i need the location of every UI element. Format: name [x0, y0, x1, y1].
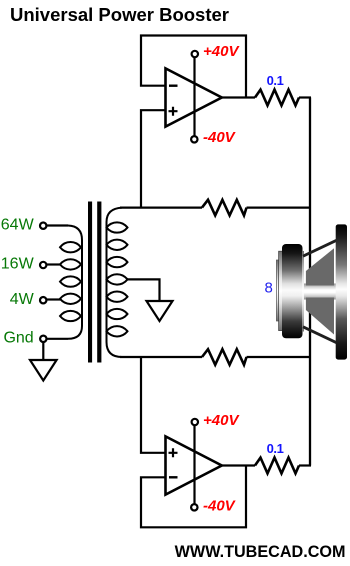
- transformer primary (left) winding: [60, 226, 82, 339]
- wire: U1 output: [222, 96, 255, 98]
- terminal -40V U2: [191, 504, 197, 510]
- op-amp U2: [166, 436, 222, 494]
- wire 16W tap: [47, 263, 62, 265]
- terminal 4W: [40, 297, 46, 303]
- speaker bottom strut: [303, 327, 337, 343]
- wire: right vertical rail: [309, 98, 311, 466]
- svg-text:+40V: +40V: [203, 43, 240, 60]
- resistor 0.1 (top): [255, 90, 299, 106]
- svg-text:WWW.TUBECAD.COM: WWW.TUBECAD.COM: [175, 543, 346, 561]
- svg-text:16W: 16W: [1, 256, 35, 273]
- svg-text:+40V: +40V: [203, 412, 240, 429]
- ground (secondary center tap): [147, 301, 173, 321]
- speaker magnet front plate: [302, 251, 304, 332]
- svg-text:64W: 64W: [1, 216, 35, 233]
- speaker top strut: [303, 240, 337, 256]
- U1 plus input symbol: [169, 107, 178, 116]
- wire: bottom op-amp + input up to transformer bottom wire: [141, 357, 166, 453]
- speaker back plate: [279, 251, 284, 330]
- wire Gnd tap: [47, 338, 69, 340]
- terminal 16W: [40, 262, 46, 268]
- resistor (bottom feedback row): [202, 349, 247, 365]
- U1 power rail line: [193, 58, 195, 136]
- svg-text:8: 8: [265, 279, 273, 296]
- U1 minus input symbol: [169, 84, 178, 86]
- svg-text:Universal Power Booster: Universal Power Booster: [10, 4, 229, 25]
- wire: speaker bottom wire from transformer: [120, 356, 202, 358]
- wire: [247, 356, 311, 358]
- wire: resistor to right rail: [299, 96, 311, 98]
- wire: U2 output: [222, 464, 255, 466]
- speaker back sliver: [276, 260, 279, 321]
- transformer secondary (right) winding: [107, 208, 128, 357]
- wire: speaker top wire from transformer: [120, 207, 202, 209]
- terminal Gnd: [40, 336, 46, 342]
- wire: [247, 207, 311, 209]
- wire 64W tap: [47, 224, 69, 226]
- terminal +40V U1: [192, 51, 198, 57]
- U2 power rail line: [193, 426, 195, 504]
- U2 minus input symbol: [169, 476, 178, 478]
- speaker cone middle band: [304, 284, 336, 300]
- speaker LS1: [276, 224, 347, 359]
- svg-text:4W: 4W: [10, 291, 35, 308]
- svg-text:Gnd: Gnd: [3, 329, 33, 346]
- op-amp U1: [166, 68, 222, 126]
- svg-text:-40V: -40V: [203, 498, 237, 515]
- svg-text:0.1: 0.1: [267, 73, 284, 88]
- resistor 0.1 (bottom): [255, 458, 299, 474]
- speaker magnet cylinder: [282, 244, 303, 338]
- U2 plus input symbol: [169, 448, 178, 457]
- svg-text:0.1: 0.1: [267, 441, 284, 456]
- speaker rim: [336, 224, 347, 359]
- wire: top op-amp + input down to transformer top wire: [141, 110, 166, 207]
- transformer T1 core: [88, 202, 92, 363]
- speaker cone lower dark: [306, 298, 334, 335]
- speaker cone upper dark: [306, 248, 334, 285]
- wire: Gnd terminal to ground: [42, 342, 44, 360]
- wire 4W tap: [47, 298, 62, 300]
- svg-text:-40V: -40V: [203, 129, 237, 146]
- ground (Gnd tap): [30, 360, 57, 381]
- wire: bottom op-amp feedback loop: [141, 466, 246, 528]
- wire: secondary center tap: [128, 279, 160, 301]
- resistor (top feedback row): [202, 200, 247, 216]
- wire: top op-amp feedback loop: [141, 36, 246, 98]
- terminal +40V U2: [192, 419, 198, 425]
- wire: resistor to right rail: [299, 464, 311, 466]
- terminal 64W: [40, 223, 46, 229]
- terminal -40V U1: [191, 136, 197, 142]
